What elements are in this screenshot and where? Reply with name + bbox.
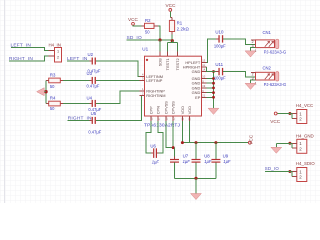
wire ground to H4_GND — [276, 143, 292, 147]
svg-text:1µF: 1µF — [223, 159, 231, 164]
node R3R4 junction — [44, 90, 47, 93]
wire CN1 pin1 to ground — [251, 48, 256, 51]
svg-text:R1: R1 — [177, 21, 183, 26]
ground (below CN1) — [245, 51, 256, 57]
supply VCC (header) — [270, 112, 281, 124]
svg-text:U10: U10 — [215, 30, 224, 35]
capacitor U8 1uF — [192, 154, 212, 164]
wire rail to ground — [195, 178, 197, 193]
supply VCC (top left of R2) — [128, 17, 139, 25]
wire LEFT_IN to U2 — [67, 60, 92, 62]
svg-text:PJ-623A3-G: PJ-623A3-G — [264, 50, 287, 55]
wire CN2 pin1 to ground — [251, 80, 256, 83]
connector H4_GND — [292, 133, 314, 153]
svg-text:2: 2 — [57, 55, 59, 59]
node CPVSS junction — [172, 146, 175, 149]
svg-text:VDD: VDD — [187, 106, 192, 114]
svg-text:2.2kΩ: 2.2kΩ — [177, 26, 190, 31]
wire H4_SDIO pin tie — [291, 172, 293, 177]
frame border line — [4, 0, 6, 203]
wire R1 bottom — [171, 32, 173, 35]
wire LEFT_IN to H4_IN pin 1 — [11, 48, 55, 51]
wire HPLEFT to U10 — [207, 39, 219, 63]
svg-text:LEFTINP: LEFTINP — [146, 78, 162, 83]
svg-text:50: 50 — [145, 30, 150, 35]
wire VCC to R2 — [133, 24, 142, 27]
wire VCC to H4_VCC — [277, 113, 292, 115]
wire CPVSS pins to U7 — [166, 121, 175, 148]
wire U11 to CN2 — [223, 72, 255, 78]
node H4_VCC junction — [288, 112, 291, 115]
svg-text:H4_IN: H4_IN — [49, 42, 61, 47]
supply VCC (rail end) — [248, 134, 253, 145]
resistor R2 50 — [145, 18, 155, 34]
svg-text:GND: GND — [192, 69, 201, 74]
wire U4 to RIGHTINP — [96, 91, 140, 103]
svg-text:U6: U6 — [150, 143, 156, 148]
wire HPRIGHT to U11 — [207, 67, 219, 72]
ground (U1 right) — [208, 108, 219, 114]
svg-text:50: 50 — [50, 106, 55, 111]
svg-text:H4_GND: H4_GND — [296, 133, 314, 138]
connector CN1 PJ-623A3-G — [251, 30, 286, 55]
ground (bottom) — [191, 194, 202, 200]
svg-text:TEST1: TEST1 — [165, 58, 170, 70]
svg-text:CPP: CPP — [149, 106, 154, 114]
wire U9 column — [215, 143, 217, 179]
svg-text:U3: U3 — [87, 71, 93, 76]
node VDD rail junctions — [181, 141, 184, 144]
svg-text:R3: R3 — [50, 72, 56, 77]
wire U7 top — [174, 148, 176, 159]
svg-text:VCC: VCC — [166, 3, 177, 8]
svg-text:H4_SDIO: H4_SDIO — [296, 161, 315, 166]
svg-text:100µF: 100µF — [214, 76, 226, 81]
wire H4_GND pin tie — [291, 143, 293, 148]
svg-text:U5: U5 — [91, 111, 97, 116]
svg-text:VCC: VCC — [270, 119, 281, 124]
wire SDB pin drop — [159, 40, 161, 56]
node GND junctions — [212, 70, 215, 99]
ground (left arrow) — [37, 88, 46, 96]
svg-text:100µF: 100µF — [214, 44, 226, 49]
wire bottom ground rail — [175, 177, 216, 179]
wire CPN to U6 — [158, 121, 163, 153]
node pin1 mark — [146, 59, 148, 61]
svg-text:0.47µF: 0.47µF — [87, 84, 100, 89]
wire U5 to RIGHTINM — [96, 95, 142, 120]
U1 left pin stubs — [140, 76, 145, 95]
svg-text:H4_VCC: H4_VCC — [296, 103, 313, 108]
svg-text:RIGHTINM: RIGHTINM — [146, 93, 165, 98]
svg-text:U11: U11 — [215, 62, 223, 67]
wire R3 to U3 — [60, 79, 63, 81]
svg-text:0.47µF: 0.47µF — [88, 129, 101, 134]
svg-text:SDB: SDB — [158, 58, 163, 66]
connector CN2 PJ-623A3-G — [251, 65, 286, 87]
svg-text:R4: R4 — [50, 95, 56, 100]
node H4_GND junction — [288, 142, 291, 145]
U1 right pin numbers — [202, 59, 205, 98]
ground (below CN2) — [245, 83, 256, 89]
svg-text:1µF: 1µF — [152, 159, 160, 164]
svg-text:U4: U4 — [87, 96, 93, 101]
svg-text:1: 1 — [57, 50, 59, 54]
svg-text:CPVSS: CPVSS — [164, 101, 169, 115]
wire VCC to R1 — [169, 11, 171, 17]
wire R2 to SD node — [154, 25, 158, 27]
capacitor U3 0.47uF — [87, 71, 100, 88]
wire H4_VCC pin tie — [291, 114, 293, 119]
U1 bottom pin stubs — [151, 116, 189, 121]
U1 right pin stubs — [202, 63, 207, 98]
node SD junction — [158, 38, 161, 41]
svg-text:VCC: VCC — [128, 17, 139, 22]
svg-text:CN1: CN1 — [263, 30, 272, 35]
supply VCC (above R1) — [166, 3, 177, 11]
capacitor U2 0.47uF — [88, 52, 101, 74]
capacitor U4 0.47uF — [87, 96, 102, 112]
resistor R3 50 — [49, 72, 61, 89]
wire SD_IO net — [127, 39, 173, 41]
capacitor U9 1uF — [211, 154, 231, 164]
svg-text:CPN: CPN — [156, 106, 161, 114]
svg-text:50: 50 — [50, 84, 55, 89]
svg-text:VCC: VCC — [249, 134, 254, 145]
wire RIGHT_IN to H4_IN pin 2 — [9, 56, 55, 61]
wire GND pins to rail — [207, 72, 214, 109]
svg-text:U1: U1 — [142, 46, 148, 51]
connector H4_VCC — [292, 103, 313, 123]
svg-text:EP: EP — [195, 95, 201, 100]
connector H4_SDIO — [292, 161, 315, 181]
capacitor U11 100uF — [214, 62, 226, 80]
wire to TEST pins — [168, 41, 178, 56]
ground (header) — [271, 147, 282, 153]
wire CPP to U6 — [146, 121, 151, 153]
capacitor U10 100uF — [214, 30, 226, 49]
wire U8 column — [195, 143, 197, 179]
wire U10 to CN1 — [223, 39, 255, 45]
svg-text:CPVSS: CPVSS — [171, 101, 176, 115]
svg-text:1µF: 1µF — [204, 159, 212, 164]
wire RIGHT_IN to U5 — [68, 119, 92, 121]
wire U7 bottom — [174, 163, 176, 179]
svg-text:SD_IO: SD_IO — [265, 166, 280, 171]
svg-text:TPA6130A2RTJ: TPA6130A2RTJ — [144, 122, 180, 128]
wire R3-R4 left tie — [46, 80, 49, 103]
capacitor U7 1uF — [170, 154, 190, 164]
U1 bottom pin numbers — [149, 117, 191, 120]
svg-text:TEST2: TEST2 — [175, 58, 180, 70]
svg-text:PJ-623A3-G: PJ-623A3-G — [264, 82, 287, 87]
svg-text:CN2: CN2 — [263, 65, 272, 70]
capacitor U6 1uF — [150, 143, 159, 164]
svg-text:R2: R2 — [145, 18, 151, 23]
op-amp U1 TPA6130A2 body — [145, 56, 202, 116]
svg-text:VDD: VDD — [180, 106, 185, 114]
node H4_SDIO junction — [288, 170, 291, 173]
capacitor U5 0.47uF — [88, 111, 101, 134]
connector H4_IN — [49, 42, 62, 62]
wire U3 to LEFTINP — [96, 79, 140, 81]
node ground rail junction — [194, 177, 197, 180]
svg-text:1µF: 1µF — [183, 159, 191, 164]
wire R4 to U4 — [60, 102, 63, 104]
node R1 junction — [171, 39, 174, 42]
resistor R4 50 — [49, 95, 61, 111]
wire SD_IO to H4_SDIO — [265, 171, 292, 173]
resistor R1 2.2k — [169, 20, 189, 31]
wire VDD pins to VCC rail — [182, 121, 248, 143]
svg-text:U2: U2 — [88, 52, 94, 57]
wire U2 to LEFTINM — [96, 61, 140, 76]
U1 top pin stubs — [160, 52, 178, 57]
